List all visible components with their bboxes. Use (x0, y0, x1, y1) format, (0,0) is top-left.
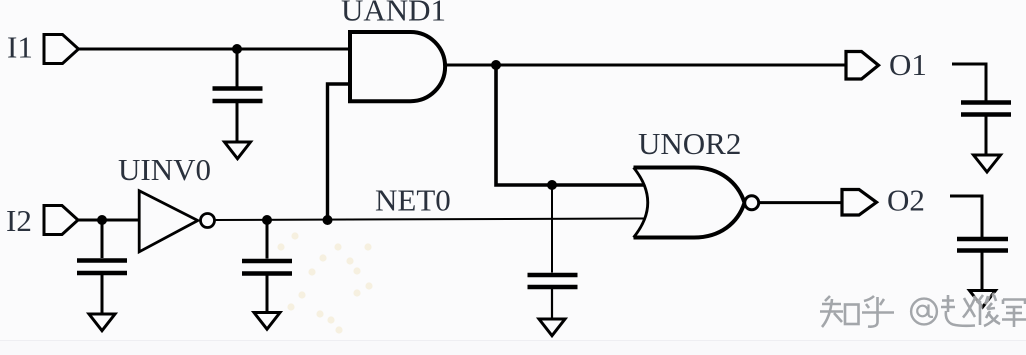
wire UAND1 output to O1 (444, 64, 846, 67)
svg-text:O1: O1 (889, 47, 927, 82)
junction node I1/C1 (232, 44, 242, 54)
capacitor C1 on net I1 (213, 49, 263, 143)
bottom boundary line (0, 341, 1026, 355)
char jun-army (1002, 300, 1026, 328)
svg-text:I1: I1 (7, 30, 33, 65)
svg-text:UNOR2: UNOR2 (638, 126, 741, 161)
wire NET0 (216, 219, 644, 221)
ground of C4 (539, 319, 565, 336)
ground of C3 (254, 313, 280, 330)
svg-text:UINV0: UINV0 (118, 152, 211, 187)
wire I1 to UAND1 input A (79, 48, 349, 51)
char zhi (820, 296, 843, 327)
output port O1 (846, 52, 879, 80)
wire UAND1 input B (from NET0 vertical riser) (328, 84, 351, 220)
wire I2 to UINV0 (78, 219, 140, 222)
junction node I2/C2 (97, 215, 107, 225)
junction node NOR input A / C4 (547, 180, 557, 190)
junction node AND output (491, 60, 501, 70)
ground of C2 (89, 314, 115, 331)
char jun-handsome (977, 295, 1000, 326)
capacitor C6 on net O2 (950, 196, 1008, 292)
faint watermark dots (277, 232, 372, 333)
ground of C1 (225, 142, 251, 159)
capacitor C2 on net I2 (77, 220, 127, 315)
svg-text:I2: I2 (6, 203, 32, 238)
output port O2 (842, 190, 877, 216)
char hu (862, 296, 894, 327)
bubble of UNOR2 (745, 196, 759, 210)
svg-text:UAND1: UAND1 (341, 0, 446, 28)
ground of C5 (974, 155, 1001, 172)
input port I1 (44, 35, 79, 64)
svg-text:O2: O2 (887, 183, 925, 218)
svg-text:NET0: NET0 (375, 183, 451, 218)
junction node NET0/C3 (262, 215, 272, 225)
capacitor C5 on net O1 (952, 64, 1011, 156)
ground of C6 (970, 291, 996, 308)
inverter UINV0 (139, 191, 214, 252)
and-gate UAND1 (350, 32, 445, 101)
watermark zhihu at zhaojunjun (820, 295, 1026, 327)
input port I2 (44, 206, 78, 235)
capacitor C4 on NOR input net (528, 185, 578, 320)
junction node NET0 riser (323, 215, 333, 225)
char zhao (941, 295, 975, 326)
char zhi box (845, 305, 859, 325)
wire UNOR2 output to O2 (760, 201, 843, 204)
wire AND output to UNOR2 input A (496, 65, 645, 185)
capacitor C3 on NET0 (242, 220, 292, 313)
nor-gate UNOR2 (634, 168, 745, 238)
at sign (911, 299, 937, 325)
watermark halo (820, 295, 1026, 327)
